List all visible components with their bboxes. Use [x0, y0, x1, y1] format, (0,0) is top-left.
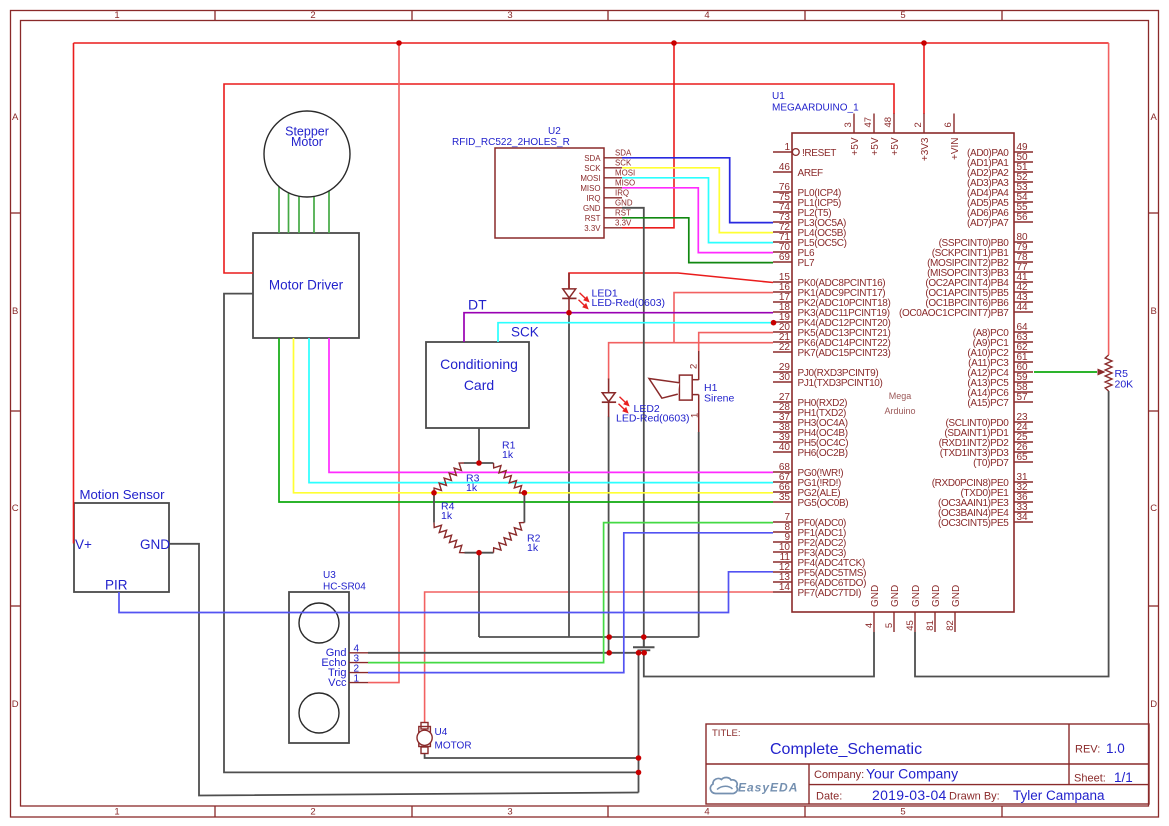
- svg-text:PL7: PL7: [798, 258, 816, 269]
- svg-text:5: 5: [900, 10, 905, 21]
- junction GND HC-SR04 line at LED2: [606, 650, 612, 656]
- svg-text:IRQ: IRQ: [615, 188, 629, 197]
- svg-text:SDA: SDA: [615, 148, 632, 157]
- wire U1 pin 20 to sirene pin 2: [699, 333, 773, 351]
- svg-text:DT: DT: [468, 297, 487, 313]
- svg-text:PG5(OC0B): PG5(OC0B): [798, 498, 849, 509]
- wire motor driver yellow to U1 pin 66 through bridge: [294, 338, 774, 493]
- resistor R3 1k: [434, 463, 480, 494]
- wire U1 pin 16 branch: [674, 293, 773, 343]
- svg-text:MISO: MISO: [615, 178, 635, 187]
- svg-text:Drawn By:: Drawn By:: [949, 791, 1000, 803]
- U1 left pin 37 PH3(OC4A): [773, 412, 848, 429]
- svg-text:C: C: [1150, 503, 1157, 514]
- svg-text:5: 5: [884, 623, 895, 628]
- U1 top pin 3 +5V: [843, 114, 861, 156]
- wire MOSI RFID to U1 pin 71: [622, 178, 773, 243]
- U3 pin 3 Echo: [321, 653, 368, 669]
- RFID U2 pin SDA: [584, 148, 632, 162]
- svg-text:+3V3: +3V3: [920, 137, 931, 161]
- resistor R1 1k: [494, 440, 525, 494]
- ground symbol: [633, 637, 655, 653]
- svg-text:B: B: [1151, 306, 1157, 317]
- wire U1 pin 60 to R5 wiper: [1034, 371, 1097, 373]
- U1 right pin 60 (A12)PC4: [967, 362, 1033, 379]
- svg-text:MOSI: MOSI: [580, 174, 600, 183]
- svg-text:C: C: [12, 503, 19, 514]
- U1 right pin 50 (AD1)PA1: [967, 152, 1033, 169]
- U1 right pin 49 (AD0)PA0: [967, 142, 1033, 159]
- svg-text:MISO: MISO: [580, 184, 600, 193]
- U1 right pin 56 (AD7)PA7: [967, 212, 1033, 229]
- U1 left pin 9 PF2(ADC2): [773, 532, 846, 549]
- junction bridge top node: [476, 460, 482, 466]
- svg-text:4: 4: [704, 807, 709, 818]
- wire U1 pin 21 to LED2 anode: [609, 343, 773, 380]
- wire U1 pin 15 to LED1 anode: [569, 273, 773, 288]
- U3 pin 2 Trig: [328, 663, 368, 679]
- resistor bridge right node stub: [523, 493, 525, 523]
- svg-text:PIR: PIR: [105, 578, 128, 593]
- U1 left pin 67 PG1(!RD!): [773, 472, 841, 489]
- wire LED1 cathode down: [568, 314, 570, 637]
- svg-text:48: 48: [883, 117, 894, 128]
- U1 right pin 59 (A13)PC5: [967, 372, 1033, 389]
- U1 left pin 70 PL6: [773, 242, 815, 259]
- wire SDA RFID to U1 pin 73: [622, 158, 773, 223]
- wire GND motor driver loop: [224, 294, 639, 773]
- resistor R2 1k: [494, 523, 541, 554]
- svg-text:2: 2: [310, 807, 315, 818]
- U1 left pin 18 PK3(ADC11PCINT19): [773, 302, 890, 319]
- svg-text:AREF: AREF: [798, 168, 824, 179]
- svg-text:Motion Sensor: Motion Sensor: [79, 487, 165, 502]
- wire +3V3 U1 pin 2 to rail: [923, 43, 925, 114]
- svg-text:4: 4: [864, 623, 875, 628]
- U1 left pin 46 AREF: [773, 162, 823, 179]
- svg-text:B: B: [12, 306, 18, 317]
- wire U1 pin 14 to motor U4: [425, 592, 773, 723]
- wire Trig HC-SR04 to U1 pin 8: [368, 533, 773, 673]
- U1 left pin 69 PL7: [773, 252, 815, 269]
- RFID U2 pin SCK: [584, 158, 632, 172]
- svg-text:40: 40: [779, 442, 791, 453]
- wire +5V to motor driver and U1 pin 48: [224, 84, 894, 273]
- ultrasonic sensor U3 labels: [323, 570, 366, 593]
- RFID U2 pin MOSI: [580, 168, 635, 182]
- svg-text:1k: 1k: [527, 542, 539, 554]
- svg-text:(T0)PD7: (T0)PD7: [973, 458, 1009, 469]
- svg-text:GND: GND: [140, 537, 170, 552]
- EasyEDA logo: [710, 777, 798, 794]
- U1 bottom pin 5 GND: [884, 585, 901, 632]
- svg-text:(AD7)PA7: (AD7)PA7: [967, 218, 1009, 229]
- svg-text:3: 3: [507, 10, 512, 21]
- U1 bottom pin 81 GND: [925, 585, 942, 632]
- U1 right pin 54 (AD5)PA5: [967, 192, 1033, 209]
- U1 bottom pin 45 GND: [905, 585, 922, 632]
- wire conditioning card to bridge top node: [478, 428, 480, 463]
- U1 left pin 76 PL0(ICP4): [773, 182, 841, 199]
- wire stepper motor phases: [278, 187, 280, 233]
- svg-text:4: 4: [704, 10, 709, 21]
- svg-text:MOTOR: MOTOR: [435, 741, 472, 752]
- junction +5V rail at x=399: [396, 40, 402, 46]
- svg-text:1k: 1k: [441, 510, 453, 522]
- svg-text:Sheet:: Sheet:: [1074, 773, 1106, 785]
- svg-text:+VIN: +VIN: [950, 138, 961, 161]
- U1 left pin 1 !RESET: [773, 142, 836, 159]
- svg-text:RST: RST: [615, 208, 631, 217]
- U3 pin 4 Gnd: [326, 644, 368, 660]
- wire motor driver magenta to U1 pin 68: [329, 338, 773, 472]
- svg-text:34: 34: [1017, 512, 1029, 523]
- U1 left pin 27 PH0(RXD2): [773, 392, 847, 409]
- svg-text:RST: RST: [585, 214, 601, 223]
- svg-text:69: 69: [779, 252, 791, 263]
- stepper motor M1: [264, 111, 350, 197]
- U1 left pin 21 PK6(ADC14PCINT22): [773, 332, 890, 349]
- U1 right pin 44 (OC0AOC1CPCINT7)PB7: [899, 302, 1033, 319]
- motor U4: [417, 723, 472, 754]
- U1 left pin 14 PF7(ADC7TDI): [773, 582, 861, 599]
- U1 left pin 15 PK0(ADC8PCINT16): [773, 272, 885, 289]
- U1 left pin 19 PK4(ADC12PCINT20): [773, 312, 890, 329]
- wire GND motion sensor to bottom rail: [169, 544, 639, 796]
- U1 right pin 55 (AD6)PA6: [967, 202, 1033, 219]
- LED1 LED-Red(0603): [562, 273, 665, 315]
- svg-text:EasyEDA: EasyEDA: [738, 781, 798, 795]
- svg-text:2: 2: [913, 122, 924, 127]
- ultrasonic sensor U3 HC-SR04 box: [289, 592, 349, 743]
- wire RST RFID to U1 pin 69: [622, 218, 773, 263]
- svg-text:Vcc: Vcc: [328, 677, 347, 689]
- wire GND U1 pin 45 to R5 bottom: [915, 391, 1109, 677]
- svg-text:GND: GND: [615, 198, 633, 207]
- svg-text:GND: GND: [911, 585, 922, 607]
- resistor bridge left node stub: [433, 493, 435, 523]
- U1 bottom pin 4 GND: [864, 585, 881, 632]
- svg-text:47: 47: [863, 117, 874, 128]
- svg-text:SCK: SCK: [615, 158, 632, 167]
- wire sirene pin 1 down: [698, 432, 700, 637]
- svg-text:35: 35: [779, 492, 791, 503]
- U1 right pin 80 (SSPCINT0)PB0: [939, 232, 1033, 249]
- svg-text:+5V: +5V: [850, 137, 861, 155]
- U1 right pin 64 (A8)PC0: [973, 322, 1033, 339]
- U1 right pin 26 (TXD1INT3)PD3: [940, 442, 1033, 459]
- svg-text:(OC3CINT5)PE5: (OC3CINT5)PE5: [938, 518, 1009, 529]
- U1 right pin 57 (A15)PC7: [967, 392, 1033, 409]
- junction +3V3 rail at x=924: [921, 40, 927, 46]
- svg-text:5: 5: [900, 807, 905, 818]
- svg-text:PF7(ADC7TDI): PF7(ADC7TDI): [798, 588, 862, 599]
- motor driver U? box: [253, 233, 359, 338]
- svg-text:Sirene: Sirene: [704, 393, 735, 405]
- svg-text:30: 30: [779, 372, 791, 383]
- wire MISO RFID to U1 pin 70: [622, 188, 773, 253]
- svg-text:Tyler Campana: Tyler Campana: [1013, 788, 1105, 803]
- U1 right pin 63 (A9)PC1: [973, 332, 1033, 349]
- U1 left pin 17 PK2(ADC10PCINT18): [773, 292, 890, 309]
- wire bridge bottom node to GND bus: [478, 553, 480, 637]
- wire +3V3 to RFID 3.3V pin: [622, 43, 674, 228]
- svg-text:GND: GND: [931, 585, 942, 607]
- U1 left pin 28 PH1(TXD2): [773, 402, 846, 419]
- svg-text:Conditioning: Conditioning: [440, 356, 518, 372]
- U1 left pin 30 PJ1(TXD3PCINT10): [773, 372, 882, 389]
- svg-text:MOSI: MOSI: [615, 168, 635, 177]
- svg-text:U3: U3: [323, 570, 336, 581]
- svg-text:Card: Card: [464, 377, 494, 393]
- svg-text:LED-Red(0603): LED-Red(0603): [616, 413, 690, 425]
- U1 left pin 75 PL1(ICP5): [773, 192, 841, 209]
- svg-text:56: 56: [1017, 212, 1029, 223]
- svg-text:IRQ: IRQ: [586, 194, 600, 203]
- svg-text:U2: U2: [548, 126, 561, 137]
- svg-text:PJ1(TXD3PCINT10): PJ1(TXD3PCINT10): [798, 378, 883, 389]
- U1 right pin 25 (RXD1INT2)PD2: [939, 432, 1033, 449]
- U1 left pin 29 PJ0(RXD3PCINT9): [773, 362, 878, 379]
- svg-text:SDA: SDA: [584, 154, 601, 163]
- wire Echo HC-SR04 to U1 pin 7: [368, 523, 773, 663]
- svg-text:+5V: +5V: [870, 137, 881, 155]
- sirene H1: [649, 351, 735, 432]
- svg-text:1k: 1k: [466, 482, 478, 494]
- microcontroller U1 MEGAARDUINO_1: [772, 91, 1014, 612]
- U1 left pin 7 PF0(ADC0): [773, 512, 846, 529]
- wire GND RFID to ground symbol: [622, 208, 644, 647]
- title block: [706, 724, 1149, 804]
- U1 left pin 20 PK5(ADC13PCINT21): [773, 322, 890, 339]
- svg-text:A: A: [1151, 112, 1158, 123]
- wire GND U1 pin 4 loop: [644, 632, 874, 677]
- svg-text:1/1: 1/1: [1114, 770, 1133, 785]
- svg-text:6: 6: [943, 122, 954, 127]
- U1 left pin 68 PG0(!WR!): [773, 462, 843, 479]
- svg-text:1k: 1k: [502, 449, 514, 461]
- svg-text:Company:: Company:: [814, 769, 864, 781]
- svg-text:U4: U4: [435, 727, 448, 738]
- U1 left pin 39 PH5(OC4C): [773, 432, 848, 449]
- svg-text:LED-Red(0603): LED-Red(0603): [592, 297, 666, 309]
- U1 right pin 24 (SDAINT1)PD1: [944, 422, 1033, 439]
- wire SCK RFID to U1 pin 72: [622, 168, 773, 233]
- U1 right pin 36 (OC3AAIN1)PE3: [938, 492, 1033, 509]
- motion sensor box: [74, 503, 169, 592]
- potentiometer R5 20K: [1098, 355, 1134, 391]
- svg-text:1: 1: [690, 413, 701, 418]
- U1 left pin 66 PG2(ALE): [773, 482, 840, 499]
- U1 right pin 23 (SCLINT0)PD0: [945, 412, 1033, 429]
- U1 right pin 32 (TXD0)PE1: [961, 482, 1033, 499]
- svg-text:Mega: Mega: [889, 391, 912, 401]
- U1 right pin 33 (OC3BAIN4)PE4: [938, 502, 1033, 519]
- wire PIR motion sensor to U1 pin 12: [119, 572, 773, 613]
- RFID U2 pin GND: [583, 198, 633, 212]
- U1 right pin 43 (OC1BPCINT6)PB6: [925, 292, 1033, 309]
- U1 left pin 72 PL4(OC5B): [773, 222, 846, 239]
- svg-text:57: 57: [1017, 392, 1029, 403]
- U1 right pin 41 (OC2APCINT4)PB4: [925, 272, 1033, 289]
- wire motor driver cyan to U1 pin 67: [309, 338, 773, 483]
- junction GND motor driver loop: [636, 770, 642, 776]
- svg-text:(OC0AOC1CPCINT7)PB7: (OC0AOC1CPCINT7)PB7: [899, 308, 1009, 319]
- svg-text:2019-03-04: 2019-03-04: [872, 787, 947, 803]
- junction bridge bottom node: [476, 550, 482, 556]
- svg-text:(A15)PC7: (A15)PC7: [967, 398, 1009, 409]
- wire +5V HC-SR04 Vcc riser: [368, 43, 399, 683]
- svg-text:SCK: SCK: [511, 325, 539, 340]
- junction +3V3 rail at x=674: [671, 40, 677, 46]
- svg-text:!RESET: !RESET: [802, 148, 836, 159]
- svg-text:1: 1: [354, 673, 360, 684]
- wire motor driver green to U1 pin 35: [279, 338, 773, 502]
- U1 right pin 53 (AD4)PA4: [967, 182, 1033, 199]
- svg-text:20K: 20K: [1115, 379, 1134, 391]
- RFID U2 pin 3.3V: [584, 218, 632, 232]
- svg-text:3: 3: [843, 122, 854, 127]
- U1 left pin 8 PF1(ADC1): [773, 522, 846, 539]
- U1 left pin 12 PF5(ADC5TMS): [773, 562, 866, 579]
- svg-text:Arduino: Arduino: [884, 406, 915, 416]
- wire LED2 cathode down: [608, 417, 610, 654]
- U1 left pin 74 PL2(T5): [773, 202, 831, 219]
- U1 top pin 6 +VIN: [943, 114, 961, 161]
- svg-text:D: D: [1150, 699, 1157, 710]
- resistor bridge bottom node bar: [465, 552, 494, 554]
- RFID reader U2 RFID_RC522_2HOLES_R: [452, 126, 604, 238]
- wire GND horizontal bus: [479, 636, 699, 638]
- svg-text:1: 1: [114, 807, 119, 818]
- svg-text:A: A: [12, 112, 19, 123]
- svg-text:1: 1: [114, 10, 119, 21]
- U1 left pin 16 PK1(ADC9PCINT17): [773, 282, 885, 299]
- svg-text:PH6(OC2B): PH6(OC2B): [798, 448, 848, 459]
- svg-text:U1: U1: [772, 91, 785, 102]
- svg-text:2: 2: [689, 364, 700, 369]
- U1 left pin 10 PF3(ADC3): [773, 542, 846, 559]
- LED2 LED-Red(0603): [602, 379, 690, 425]
- U1 left pin 40 PH6(OC2B): [773, 442, 848, 459]
- junction GND at ground symbol stem: [641, 650, 647, 656]
- svg-text:Date:: Date:: [816, 791, 842, 803]
- junction GND riser: [636, 650, 642, 656]
- U1 left pin 71 PL5(OC5C): [773, 232, 847, 249]
- U1 top pin 2 +3V3: [913, 114, 931, 162]
- U1 right pin 31 (RXD0PCIN8)PE0: [932, 472, 1033, 489]
- resistor bridge top node bar: [464, 462, 494, 464]
- wire +5V rail top: [74, 42, 1109, 44]
- svg-text:44: 44: [1017, 302, 1029, 313]
- junction SCK at U1 pin 19: [771, 320, 777, 326]
- wire GND motor U4 bottom: [425, 754, 639, 759]
- svg-text:HC-SR04: HC-SR04: [323, 582, 366, 593]
- U1 right pin 78 (MOSIPCINT2)PB2: [927, 252, 1033, 269]
- svg-text:GND: GND: [951, 585, 962, 607]
- junction bridge left node: [431, 490, 437, 496]
- svg-text:3.3V: 3.3V: [615, 218, 632, 227]
- svg-text:46: 46: [779, 162, 791, 173]
- wire GND riser to ground hub: [638, 653, 640, 793]
- svg-text:Your Company: Your Company: [866, 766, 958, 782]
- wire GND HC-SR04 Gnd pin: [368, 652, 644, 654]
- svg-text:+5V: +5V: [890, 137, 901, 155]
- svg-text:V+: V+: [75, 537, 92, 552]
- svg-text:RFID_RC522_2HOLES_R: RFID_RC522_2HOLES_R: [452, 137, 570, 148]
- svg-text:D: D: [12, 699, 19, 710]
- svg-text:TITLE:: TITLE:: [712, 728, 741, 739]
- svg-text:3.3V: 3.3V: [584, 224, 601, 233]
- svg-text:3: 3: [507, 807, 512, 818]
- svg-text:65: 65: [1017, 452, 1029, 463]
- svg-text:Motor Driver: Motor Driver: [269, 278, 344, 293]
- svg-text:1: 1: [784, 142, 790, 153]
- svg-text:PK7(ADC15PCINT23): PK7(ADC15PCINT23): [798, 348, 891, 359]
- RFID U2 pin MISO: [580, 178, 635, 192]
- U1 right pin 65 (T0)PD7: [973, 452, 1033, 469]
- svg-text:GND: GND: [583, 204, 601, 213]
- junction GND bus at ground symbol: [641, 634, 647, 640]
- conditioning card labels: [440, 356, 518, 393]
- svg-text:REV:: REV:: [1075, 744, 1100, 756]
- U1 right pin 42 (OC1APCINT5)PB5: [925, 282, 1033, 299]
- U1 right pin 52 (AD3)PA3: [967, 172, 1033, 189]
- svg-text:Complete_Schematic: Complete_Schematic: [770, 741, 922, 758]
- motion sensor labels: [75, 487, 170, 593]
- U1 right pin 34 (OC3CINT5)PE5: [938, 512, 1033, 529]
- svg-text:45: 45: [905, 620, 916, 631]
- U1 right pin 79 (SCKPCINT1)PB1: [932, 242, 1033, 259]
- U1 left pin 22 PK7(ADC15PCINT23): [773, 342, 890, 359]
- U1 right pin 51 (AD2)PA2: [967, 162, 1033, 179]
- U1 right pin 58 (A14)PC6: [967, 382, 1033, 399]
- svg-text:MEGAARDUINO_1: MEGAARDUINO_1: [772, 103, 859, 114]
- U1 left pin 35 PG5(OC0B): [773, 492, 848, 509]
- svg-text:GND: GND: [890, 585, 901, 607]
- svg-text:82: 82: [945, 620, 956, 631]
- resistor R4 1k: [434, 501, 465, 553]
- junction GND motor bottom: [636, 755, 642, 761]
- junction bridge right node: [522, 490, 528, 496]
- svg-text:1.0: 1.0: [1106, 741, 1125, 756]
- svg-text:GND: GND: [870, 585, 881, 607]
- U1 bottom pin 82 GND: [945, 585, 962, 632]
- wire SCK conditioning card to U1 pin 19: [498, 323, 773, 342]
- U1 right pin 62 (A10)PC2: [967, 342, 1033, 359]
- U1 left pin 11 PF4(ADC4TCK): [773, 552, 865, 569]
- svg-text:14: 14: [779, 582, 791, 593]
- U1 left pin 13 PF6(ADC6TDO): [773, 572, 866, 589]
- U1 right pin 61 (A11)PC3: [968, 352, 1033, 369]
- U1 right pin 77 (MISOPCINT3)PB3: [927, 262, 1033, 279]
- junction GND bus at LED2: [606, 634, 612, 640]
- wire +5V to motion sensor V+: [73, 43, 75, 544]
- RFID U2 pin RST: [585, 208, 631, 222]
- svg-text:SCK: SCK: [584, 164, 601, 173]
- U3 pin 1 Vcc: [328, 673, 368, 689]
- U1 top pin 48 +5V: [883, 114, 901, 156]
- RFID U2 pin IRQ: [586, 188, 629, 202]
- conditioning card box: [426, 342, 529, 428]
- svg-text:22: 22: [779, 342, 791, 353]
- svg-text:2: 2: [310, 10, 315, 21]
- U1 left pin 38 PH4(OC4B): [773, 422, 848, 439]
- svg-text:Motor: Motor: [291, 135, 323, 149]
- U1 left pin 73 PL3(OC5A): [773, 212, 846, 229]
- svg-text:81: 81: [925, 620, 936, 631]
- U1 top pin 47 +5V: [863, 114, 881, 156]
